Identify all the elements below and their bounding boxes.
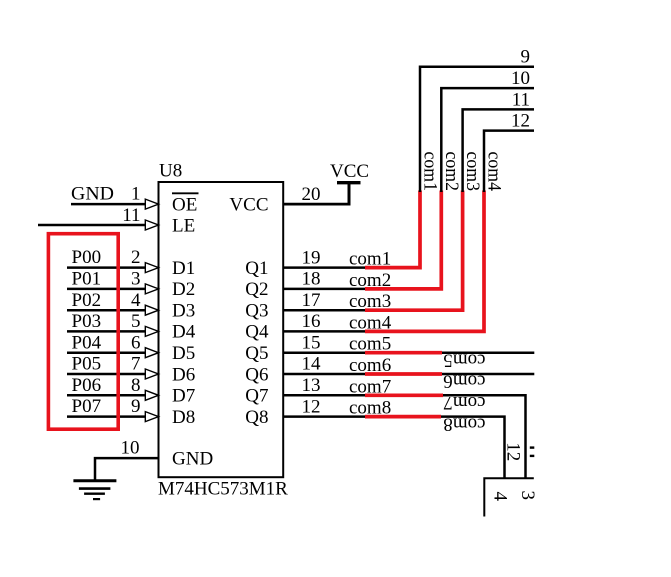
svg-text:P05: P05 [72,354,102,375]
svg-text:12: 12 [503,442,524,461]
svg-text:com4: com4 [484,152,505,192]
wire com7 to connector [443,395,526,478]
svg-text:17: 17 [302,290,321,311]
svg-text:19: 19 [302,247,321,268]
svg-text:10: 10 [121,438,140,459]
svg-text:P00: P00 [72,247,102,268]
wire D2 input [67,288,146,291]
svg-text:Q7: Q7 [245,386,268,407]
wire D1 input [67,266,146,269]
power symbol VCC [348,183,351,206]
wire D4 input [67,330,146,333]
svg-text:D6: D6 [172,364,195,385]
pin arrow 5 [145,326,158,336]
svg-text:com7: com7 [443,392,485,413]
svg-text:U8: U8 [159,161,182,182]
red wire com5 [365,351,442,355]
svg-text:D7: D7 [172,386,195,407]
svg-text:15: 15 [302,332,321,353]
wire com2 vertical riser [441,88,534,192]
svg-text:OE: OE [172,194,197,215]
svg-text:M74HC573M1R: M74HC573M1R [158,479,288,500]
svg-text:3: 3 [517,491,538,501]
svg-text:11: 11 [512,89,530,110]
wire pin 11 LE [38,224,146,227]
svg-text:1: 1 [131,184,141,205]
svg-text:9: 9 [521,47,531,68]
wire pin 1 [71,203,146,206]
svg-text:Q6: Q6 [245,364,268,385]
svg-text:D3: D3 [172,301,195,322]
pin arrow 7 [145,369,158,379]
svg-text:20: 20 [302,184,321,205]
red wire com6 [365,372,442,376]
red wire com3 [365,191,463,311]
svg-text:D8: D8 [172,407,195,428]
svg-text:7: 7 [131,354,141,375]
red wire com2 [365,191,441,289]
wire Q4 output [283,330,371,333]
svg-text:Q8: Q8 [245,407,268,428]
pin arrow 2 [145,263,158,273]
pin arrow 8 [145,390,158,400]
svg-text:12: 12 [302,396,321,417]
svg-text:14: 14 [302,354,322,375]
svg-text:13: 13 [302,375,321,396]
svg-text:com3: com3 [462,152,483,192]
wire D8 input [67,415,146,418]
svg-text:D1: D1 [172,258,195,279]
svg-text:Q5: Q5 [245,343,268,364]
svg-text:com8: com8 [443,413,485,434]
wire Q8 output [283,415,371,418]
wire com3 vertical riser [463,109,534,192]
svg-text:GND: GND [71,184,114,205]
svg-text:3: 3 [131,269,141,290]
svg-text:10: 10 [511,68,530,89]
svg-text:com2: com2 [441,152,462,192]
connector box bottom [484,478,534,516]
svg-text:P02: P02 [72,290,102,311]
pin arrow 6 [145,348,158,358]
pin arrow 9 [145,412,158,422]
pin arrow 11 [145,220,158,230]
svg-text:11: 11 [122,205,140,226]
wire com8 to connector [441,417,505,478]
svg-text:6: 6 [131,332,141,353]
svg-text:4: 4 [490,492,511,502]
svg-text:D5: D5 [172,343,195,364]
svg-text:9: 9 [131,396,141,417]
wire Q5 output [283,351,371,354]
svg-text:com6: com6 [443,371,485,392]
svg-text:P06: P06 [72,375,102,396]
svg-text:8: 8 [131,375,141,396]
wire D6 input [67,373,146,376]
wire pin 10 GND [95,458,159,480]
wire D3 input [67,309,146,312]
svg-text:D4: D4 [172,322,196,343]
svg-text:Q1: Q1 [245,258,268,279]
pin arrow 3 [145,284,158,294]
svg-text:Q3: Q3 [245,301,268,322]
svg-text:com5: com5 [443,349,485,370]
red wire com7 [365,393,443,397]
svg-text:16: 16 [302,311,321,332]
svg-text:D2: D2 [172,279,195,300]
wire Q1 output [283,266,371,269]
IC U8 body M74HC573 [159,182,284,477]
wire com1 vertical riser [420,67,534,192]
red wire com8 [365,415,441,419]
svg-text:com1: com1 [420,152,441,192]
svg-text:4: 4 [131,290,141,311]
wire D5 input [67,351,146,354]
svg-text:P03: P03 [72,311,102,332]
wire com4 vertical riser [484,131,534,192]
wire com6 to right [442,373,534,376]
svg-text:GND: GND [172,448,213,469]
svg-text:12: 12 [511,111,530,132]
svg-text:18: 18 [302,269,321,290]
wire D7 input [67,394,146,397]
wire Q3 output [283,309,371,312]
wire Q2 output [283,288,371,291]
svg-text:Q2: Q2 [245,279,268,300]
wire com5 to right [442,351,534,354]
svg-text:P01: P01 [72,269,102,290]
pin number 11 partial dashes [530,446,535,448]
svg-text:P07: P07 [72,396,102,417]
ground symbol [73,481,116,499]
svg-text:2: 2 [131,247,141,268]
red bus frame around P00-P07 [48,234,118,430]
svg-text:5: 5 [131,311,141,332]
pin arrow 1 [145,199,158,209]
wire pin 20 [283,203,351,206]
wire Q7 output [283,394,371,397]
svg-text:Q4: Q4 [245,322,269,343]
svg-text:P04: P04 [72,332,102,353]
wire Q6 output [283,373,371,376]
red wire com4 [365,191,484,332]
svg-text:LE: LE [172,215,195,236]
red wire com1 [365,191,420,268]
svg-text:VCC: VCC [330,161,369,182]
svg-text:VCC: VCC [229,194,268,215]
pin arrow 4 [145,305,158,315]
